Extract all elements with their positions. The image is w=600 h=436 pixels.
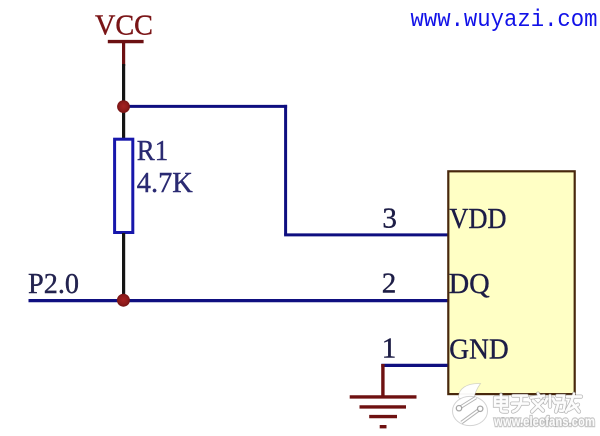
- resistor R1 body: [115, 139, 133, 232]
- ground bar 4: [380, 425, 387, 428]
- svg-text:R1: R1: [137, 135, 168, 167]
- watermark elecfans logo traces: [456, 398, 483, 423]
- ground bar 1: [350, 395, 417, 398]
- wire junction to resistor top: [122, 101, 125, 139]
- IC U1 body: [448, 171, 574, 394]
- svg-text:4.7K: 4.7K: [137, 167, 193, 199]
- watermark chinese characters 电子发烧友: [495, 394, 581, 412]
- wire resistor bottom to junction: [122, 233, 125, 295]
- wire P2.0 to pin 2 DQ: [29, 299, 448, 302]
- node junction VCC/R1: [117, 100, 130, 113]
- svg-text:GND: GND: [449, 333, 508, 365]
- power symbol VCC bar: [108, 40, 144, 43]
- wire to pin 3 VDD: [284, 233, 447, 236]
- svg-text:3: 3: [382, 203, 397, 235]
- wire corner vertical: [284, 105, 287, 235]
- svg-text:www.wuyazi.com: www.wuyazi.com: [411, 7, 598, 34]
- svg-text:P2.0: P2.0: [28, 268, 79, 300]
- wire VCC stub red: [122, 42, 125, 66]
- node junction P2.0: [117, 294, 130, 307]
- svg-text:VDD: VDD: [450, 203, 507, 235]
- ground bar 3: [369, 415, 397, 418]
- watermark elecfans logo disc: [453, 396, 488, 425]
- svg-text:DQ: DQ: [449, 268, 490, 300]
- svg-text:1: 1: [382, 333, 397, 365]
- svg-text:www.elecfans.com: www.elecfans.com: [493, 413, 595, 429]
- ground bar 2: [360, 405, 407, 408]
- wire junction to corner horizontal: [127, 105, 287, 108]
- wire VCC stub black: [122, 64, 125, 102]
- ground stub: [381, 364, 384, 396]
- watermark elecfans logo leaf: [459, 383, 481, 400]
- svg-text:VCC: VCC: [95, 9, 153, 41]
- svg-text:2: 2: [382, 268, 397, 300]
- wire pin 1 GND to ground: [381, 364, 447, 367]
